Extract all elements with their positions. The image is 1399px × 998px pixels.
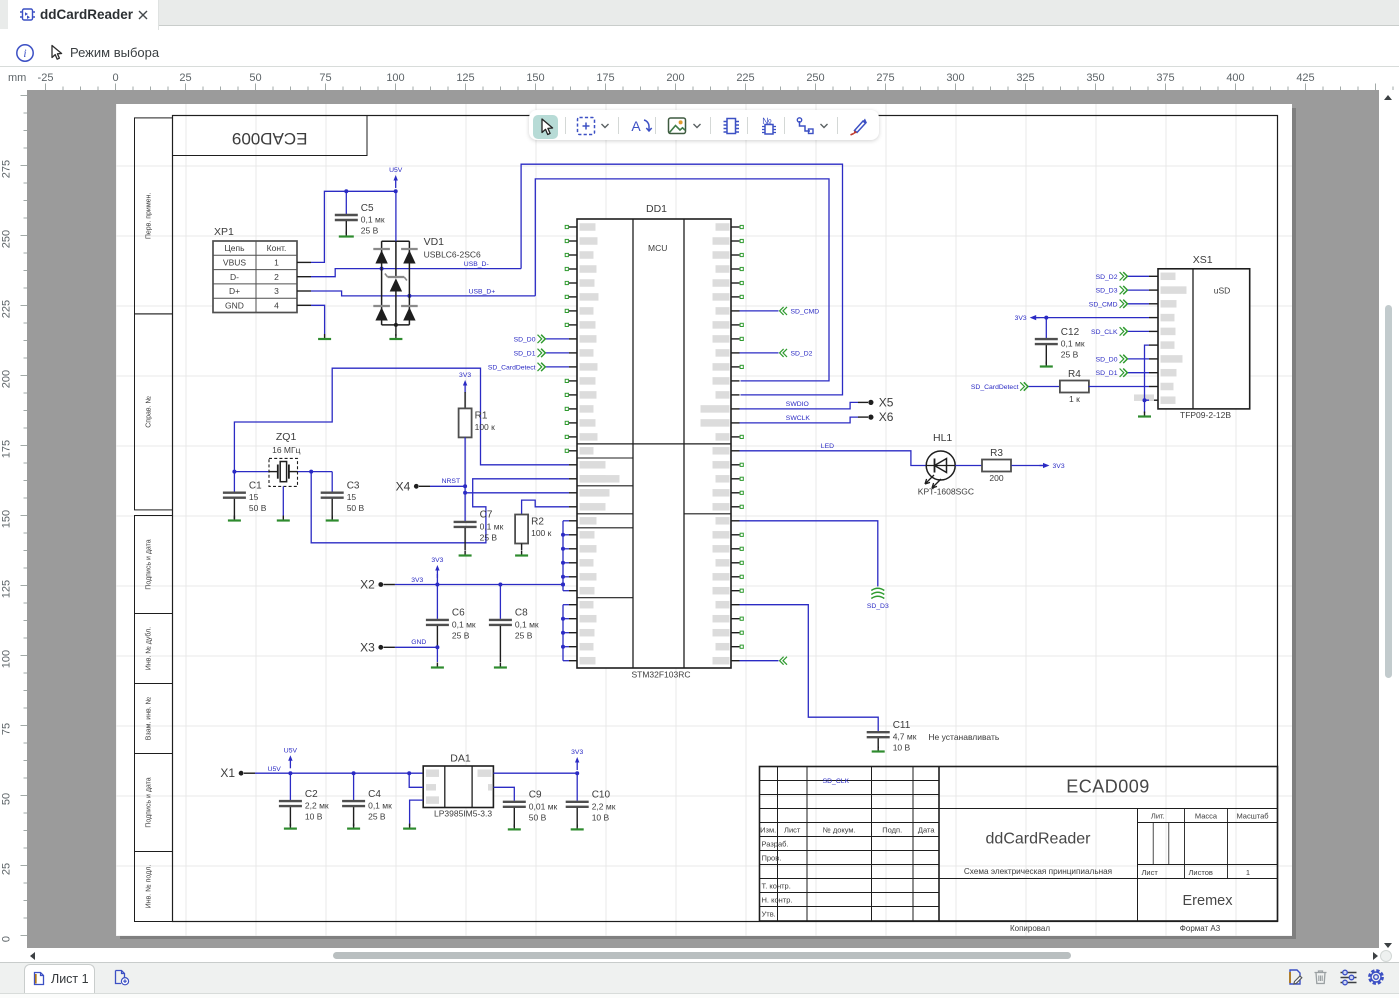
capacitor C12 xyxy=(1035,318,1085,364)
net label SWCLK xyxy=(786,415,811,422)
testpoint X2 xyxy=(360,578,395,592)
wire SD_D2 xyxy=(740,352,779,354)
note label xyxy=(928,732,999,742)
capacitor C1 xyxy=(223,472,267,519)
ground xyxy=(508,824,521,829)
capacitor C11 xyxy=(867,720,917,753)
wire SD_D3 (to termination) xyxy=(740,521,878,587)
net label SD_D3 xyxy=(1096,286,1128,295)
resistor R2 xyxy=(515,515,552,551)
net label SD_CLK xyxy=(1091,327,1127,336)
ground xyxy=(389,334,402,339)
svg-text:400: 400 xyxy=(1226,72,1244,84)
wire 3V3 pin bus xyxy=(561,521,569,591)
wire VBUS/U5V xyxy=(311,189,398,262)
svg-text:100: 100 xyxy=(386,72,404,84)
testpoint X3 xyxy=(360,640,395,654)
testpoint X4 xyxy=(396,479,430,493)
ground xyxy=(1138,412,1151,417)
capacitor C9 xyxy=(503,790,558,827)
wire SD_CardDetect to R4 xyxy=(1028,386,1060,388)
wire NRST xyxy=(430,437,569,521)
title block xyxy=(760,767,1278,922)
LED HL1 KPT-1608SGC xyxy=(918,432,974,497)
wire 3V3 out xyxy=(493,771,579,775)
wire OSC_OUT xyxy=(309,470,569,543)
resistor R1 xyxy=(459,392,496,437)
wire USB_D+ (XP1 to DD1) xyxy=(311,179,829,381)
footer labels xyxy=(1010,924,1221,933)
ground xyxy=(459,551,472,556)
resistor R3 xyxy=(982,448,1011,483)
sheet frame xyxy=(173,116,1278,922)
wire DA1 EN xyxy=(409,773,423,787)
wire SD_CMD xyxy=(1128,303,1150,305)
wire LED xyxy=(740,451,927,466)
capacitor C6 xyxy=(426,608,476,648)
wire SD_D1 xyxy=(1128,372,1150,374)
wire bottom chevron net xyxy=(740,660,779,662)
wire SD_D3 xyxy=(1128,289,1150,291)
net reference chevron xyxy=(780,657,787,665)
power U5V xyxy=(389,167,403,188)
svg-text:125: 125 xyxy=(456,72,474,84)
horizontal scrollbar xyxy=(0,948,1399,962)
svg-text:175: 175 xyxy=(596,72,614,84)
no-connect termination SD_D3 xyxy=(867,588,889,610)
net label SD_CLK xyxy=(823,778,850,785)
net label NRST xyxy=(442,478,461,485)
net label SWDIO xyxy=(786,401,809,408)
wire U5V rail xyxy=(255,771,423,775)
wire SWDIO xyxy=(740,402,869,409)
svg-text:425: 425 xyxy=(1296,72,1314,84)
wire 3V3 rail (X2) xyxy=(395,583,565,587)
ground xyxy=(403,824,416,829)
ground xyxy=(515,551,528,556)
top stamp ECAD009 (rotated) xyxy=(173,116,368,156)
ground xyxy=(277,516,290,521)
svg-text:275: 275 xyxy=(876,72,894,84)
net label SD_CMD xyxy=(780,307,820,316)
diode array VD1 USBLC6-2SC6 xyxy=(373,191,481,336)
net label SD_CardDetect xyxy=(971,382,1028,391)
svg-text:75: 75 xyxy=(319,72,331,84)
wire SD_CLK (to C11) xyxy=(740,605,879,732)
Утв row label xyxy=(762,909,776,918)
wire DA1 BYP xyxy=(493,787,514,801)
wire HL1 to R3 xyxy=(955,465,981,467)
wire VSS pin bus xyxy=(561,605,569,661)
net label SD_D2 xyxy=(1096,272,1128,281)
testpoint X1 xyxy=(220,766,255,780)
power 3V3 xyxy=(1015,315,1040,322)
net label SD_D1 xyxy=(514,349,546,358)
wire crystal pins xyxy=(234,471,332,473)
ground xyxy=(431,663,444,668)
net label U5V xyxy=(268,766,282,773)
capacitor C4 xyxy=(342,773,392,826)
ground xyxy=(571,824,584,829)
net label SD_D2 xyxy=(780,349,813,358)
power 3V3 xyxy=(571,749,583,770)
power 3V3 xyxy=(431,557,443,578)
capacitor C2 xyxy=(279,773,329,826)
net label SD_D1 xyxy=(1096,369,1128,378)
ground xyxy=(494,663,507,668)
svg-text:50: 50 xyxy=(249,72,261,84)
power U5V xyxy=(284,747,298,768)
wire GND (X3) xyxy=(395,645,440,662)
net label LED xyxy=(821,443,834,450)
svg-text:200: 200 xyxy=(666,72,684,84)
net label 3V3 xyxy=(411,577,423,584)
svg-text:25: 25 xyxy=(179,72,191,84)
wire 3V3 to XS1 xyxy=(1033,316,1149,320)
wire USB_D- (XP1 to DD1) xyxy=(311,164,843,395)
ground xyxy=(284,824,297,829)
net label SD_D0 xyxy=(514,335,546,344)
capacitor C3 xyxy=(321,472,365,519)
ground xyxy=(339,232,354,237)
wire SD_D0 xyxy=(545,338,569,340)
svg-text:325: 325 xyxy=(1016,72,1034,84)
connector XS1 TFP09-2-12B xyxy=(1134,254,1250,420)
crystal ZQ1 16 MHz xyxy=(269,431,301,515)
svg-text:150: 150 xyxy=(526,72,544,84)
ground xyxy=(318,334,331,339)
wire R3 to 3V3 xyxy=(1012,465,1044,467)
wire R4 to XS1 xyxy=(1089,386,1149,388)
ground xyxy=(1040,362,1053,367)
testpoint X6 xyxy=(868,410,893,424)
power 3V3 xyxy=(1040,463,1065,470)
svg-text:A: A xyxy=(631,118,641,134)
wire SD_D1 xyxy=(545,352,569,354)
wire XS1 GND bus xyxy=(1143,345,1150,413)
capacitor C5 xyxy=(335,191,385,235)
IC DD1 STM32F103RC xyxy=(565,203,743,680)
IC DA1 LP3985IM5-3.3 xyxy=(423,752,493,818)
net label GND xyxy=(411,639,426,646)
wire SD_CMD xyxy=(740,310,779,312)
wire XP1 GND xyxy=(311,305,325,334)
ground xyxy=(326,516,339,521)
wire BOOT0 xyxy=(522,500,569,514)
left margin column boxes xyxy=(135,118,173,922)
toolbar xyxy=(0,30,1399,67)
wire C6 top xyxy=(436,574,438,619)
wire OSC_IN xyxy=(232,368,569,473)
wire DA1 GND xyxy=(410,800,424,826)
net label USB_D+ xyxy=(469,289,496,296)
svg-text:225: 225 xyxy=(736,72,754,84)
tab bar xyxy=(0,0,1399,26)
power 3V3 xyxy=(459,372,471,393)
ground xyxy=(872,747,885,752)
svg-text:250: 250 xyxy=(806,72,824,84)
wire SD_CLK xyxy=(1128,330,1150,332)
connector XP1 xyxy=(213,226,311,313)
wire SD_D0 xyxy=(1128,358,1150,360)
resistor R4 xyxy=(1060,369,1089,404)
net label SD_D0 xyxy=(1096,355,1128,364)
svg-text:375: 375 xyxy=(1156,72,1174,84)
ground xyxy=(228,516,241,521)
svg-text:300: 300 xyxy=(946,72,964,84)
wire SD_CardDetect xyxy=(545,366,569,368)
rulers xyxy=(0,67,1399,90)
svg-text:0: 0 xyxy=(112,72,118,84)
ground xyxy=(347,824,360,829)
capacitor C7 xyxy=(454,510,504,550)
net label SD_CMD xyxy=(1089,300,1128,309)
testpoint X5 xyxy=(868,395,893,409)
wire SD_D2 xyxy=(1128,275,1150,277)
wire SWCLK xyxy=(740,417,869,423)
status bar xyxy=(0,962,1399,993)
net label USB_D- xyxy=(464,261,489,268)
capacitor C8 xyxy=(489,585,539,663)
capacitor C10 xyxy=(566,773,616,827)
svg-text:-25: -25 xyxy=(38,72,54,84)
floating toolbar xyxy=(529,110,879,140)
net label SD_CardDetect xyxy=(488,363,545,372)
vertical scrollbar xyxy=(1379,90,1399,962)
svg-text:350: 350 xyxy=(1086,72,1104,84)
